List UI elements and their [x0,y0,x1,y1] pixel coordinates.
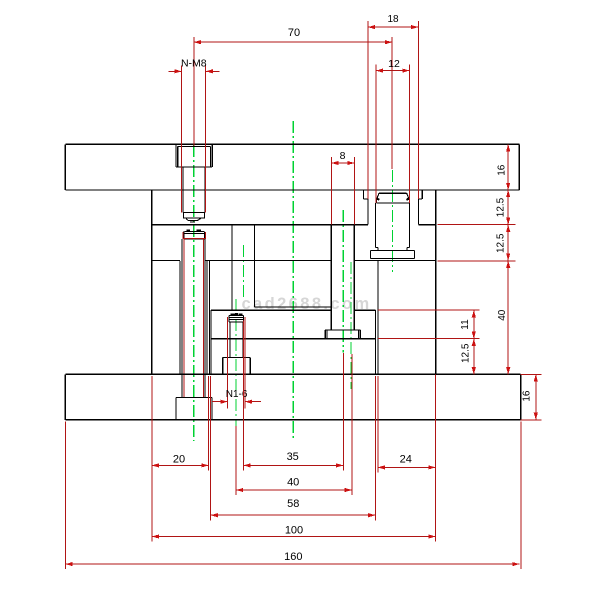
dimension 20 [152,464,209,466]
second ejector pin hole [231,225,233,311]
screw tip chamfer [186,218,188,221]
svg-text:12.5: 12.5 [495,233,506,253]
A-B plates right edge [435,190,437,374]
screw tip collar [183,213,204,218]
svg-text:11: 11 [460,319,471,330]
dimension 35 [243,464,343,466]
screw shank in A plate [182,167,184,213]
svg-text:12: 12 [388,58,400,70]
centerline return pin [350,262,352,389]
lower pin hole walls in spacer [179,261,181,374]
guide pillar hole in A plate [362,190,364,199]
svg-text:40: 40 [497,309,508,321]
parting line A-B [152,224,368,226]
centerline main mold axis [292,121,294,441]
right dimension chain line [507,144,509,374]
svg-text:N1-6: N1-6 [226,389,248,400]
ext line B bottom right [438,260,516,262]
dimension N-M8 [169,70,182,72]
right spacer inner face [377,261,379,375]
bottom extension lines [64,421,66,569]
ejector plates left edge [210,310,212,374]
small screw shank [229,322,231,357]
centerline second ejector hole [242,245,244,300]
svg-text:20: 20 [173,453,185,465]
screw thread lines red [181,66,183,213]
svg-text:12.5: 12.5 [461,343,472,363]
svg-text:24: 24 [400,454,412,466]
lower pin head [183,231,185,239]
dimension 160 [65,563,519,565]
A-B plates left edge [151,190,153,374]
svg-text:8: 8 [340,150,346,162]
guide pillar body [375,203,377,248]
guide pillar head [379,192,407,194]
ejector retainer-base boundary [211,338,376,340]
svg-text:100: 100 [285,524,303,536]
small screw head [228,315,230,322]
screw head N-M8 [177,146,179,167]
svg-text:58: 58 [287,498,299,510]
dimension 12 [376,70,410,72]
svg-text:12.5: 12.5 [495,197,506,217]
right inner dimension 11 and 12.5 [473,310,475,374]
ejector plates right edge [374,310,376,374]
centerline small screw N1-6 [235,299,237,427]
centerline screw N-M8 column [193,145,195,441]
svg-text:40: 40 [287,476,299,488]
small screw foot boss [223,356,251,358]
svg-text:16: 16 [521,390,532,402]
svg-text:160: 160 [284,551,302,563]
B plate bottom line [152,260,180,262]
svg-text:70: 70 [288,27,300,39]
dimension N1-6 [212,401,228,403]
clearance box in bottom plate [175,398,177,420]
dimension 100 [152,536,436,538]
dimension 40 bottom [236,489,352,491]
lower pin head cap [184,230,204,232]
svg-text:16: 16 [496,164,507,176]
counterbore in top plate [175,144,177,167]
centerline guide pillar [391,170,393,272]
guide pillar ring step [376,247,379,249]
dimension 24 [378,466,436,468]
lower pin shank [181,239,183,398]
ejector pin shank [330,225,332,330]
svg-text:35: 35 [287,451,299,463]
top clamping plate [65,143,519,145]
centerline ejector pin [342,210,344,353]
dimension 18 [368,26,418,28]
bottom right dimension 16 [535,374,537,419]
left spacer inner face [209,261,211,375]
guide pillar flange [370,249,414,251]
dimension 58 [211,514,376,516]
dimension 8 ejector pin [331,162,354,164]
small screw head cap [235,313,238,315]
ejector retainer plate top [211,309,331,311]
dimension 70 [194,41,392,43]
bottom clamping plate [65,373,520,375]
svg-text:N-M8: N-M8 [181,58,207,70]
ejector pin flange [325,329,360,331]
svg-text:18: 18 [387,14,399,25]
